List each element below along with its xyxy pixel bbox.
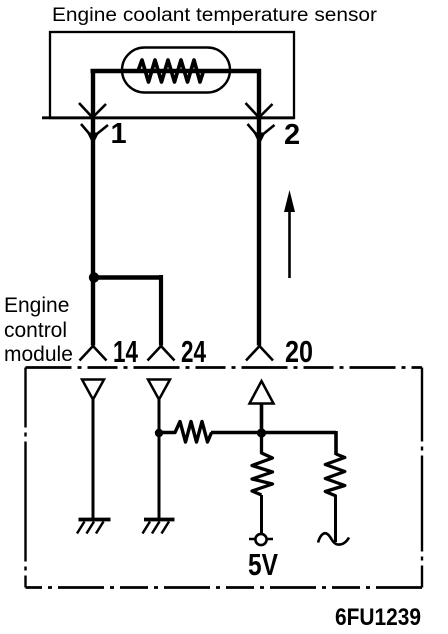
wire: vertical to pin 24 [159, 275, 163, 346]
svg-text:20: 20 [285, 334, 313, 369]
junction dot (left wire split) [89, 272, 99, 282]
wire: left vertical (pin 1 to pin 14) [91, 69, 95, 346]
connector pin 2 (lower V) [248, 124, 275, 138]
svg-text:Engine coolant temperature sen: Engine coolant temperature sensor [52, 5, 378, 26]
wire: pin24 to ground [158, 400, 161, 520]
ECM box bottom edge (chain line) [26, 586, 423, 589]
svg-text:control: control [4, 319, 67, 342]
connector pin 14 (Y) [80, 346, 107, 361]
connector pin 1 (upper V) [79, 103, 106, 118]
connector pin 1 (lower V) [81, 124, 108, 138]
sensor box [50, 32, 294, 118]
wire: pin 20 triangle to junction [260, 404, 264, 436]
wire: resistor to 5V terminal [260, 495, 263, 534]
svg-text:14: 14 [113, 334, 139, 369]
ECM terminal triangle (pin 20, up) [250, 381, 274, 404]
svg-text:1: 1 [111, 118, 127, 150]
wire: horizontal bus to right branch [211, 431, 336, 435]
junction dot (pull-up tap) [155, 429, 163, 437]
ECM box top edge (chain line) [26, 366, 423, 369]
wire: right vertical (pin 2 to pin 20) [257, 69, 261, 346]
svg-text:Engine: Engine [4, 294, 69, 317]
ECM box right edge (chain line) [421, 368, 423, 588]
resistor R (horizontal, pull-up) [159, 422, 212, 443]
svg-text:6FU1239: 6FU1239 [335, 604, 421, 631]
wire: right branch down [334, 431, 338, 455]
ECM terminal triangle (pin 24, down) [148, 380, 170, 400]
svg-text:2: 2 [284, 119, 300, 151]
ground (pin 14) [79, 518, 111, 522]
wire: jumper horizontal to pin 24 [93, 275, 162, 280]
connector pin 20 (Y) [246, 346, 273, 361]
connector pin 2 (upper V) [246, 103, 273, 118]
ECM terminal triangle (pin 14, down) [82, 380, 104, 400]
signal direction arrow (up) [288, 212, 291, 278]
resistor (vertical, to 5V) [252, 433, 273, 495]
connector pin 2 (arrowhead) [254, 133, 264, 144]
continuation squiggle [318, 533, 349, 544]
svg-text:module: module [4, 343, 73, 366]
wire: resistor to continuation [334, 495, 337, 542]
junction dot (pin 20 node) [257, 428, 266, 437]
sensor body oval [122, 48, 230, 93]
ground (pin 24) [144, 518, 175, 522]
svg-text:5V: 5V [248, 547, 278, 582]
wire: pin14 to ground [92, 400, 95, 520]
connector pin 1 (arrowhead) [88, 133, 99, 144]
resistor (vertical, right branch) [325, 454, 345, 496]
ECM box left edge (chain line) [24, 368, 26, 588]
wire: sensor top horizontal [91, 69, 262, 73]
resistor (sensor element) [138, 60, 204, 82]
connector pin 24 (Y) [148, 346, 175, 361]
5V terminal (circle) [249, 538, 273, 540]
svg-text:24: 24 [181, 334, 207, 369]
